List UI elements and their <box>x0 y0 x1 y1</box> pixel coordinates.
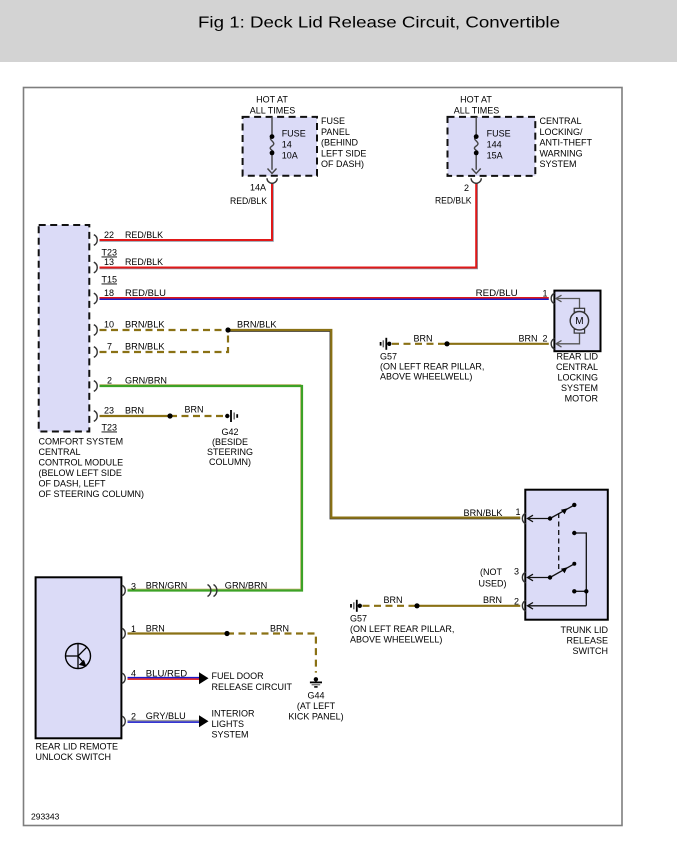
svg-text:3: 3 <box>514 567 519 577</box>
svg-text:(AT LEFT: (AT LEFT <box>297 701 336 711</box>
svg-text:RELEASE: RELEASE <box>566 636 608 646</box>
svg-text:13: 13 <box>104 257 114 267</box>
svg-text:LOCKING: LOCKING <box>557 373 598 383</box>
svg-text:RED/BLU: RED/BLU <box>125 288 166 298</box>
svg-text:14A: 14A <box>250 183 266 193</box>
svg-text:CENTRAL: CENTRAL <box>540 116 582 126</box>
svg-text:ANTI-THEFT: ANTI-THEFT <box>540 138 593 148</box>
svg-text:(BESIDE: (BESIDE <box>212 437 248 447</box>
svg-text:HOT AT: HOT AT <box>256 95 288 105</box>
svg-text:SWITCH: SWITCH <box>573 646 609 656</box>
svg-text:REAR LID REMOTE: REAR LID REMOTE <box>36 742 119 752</box>
svg-text:(NOT: (NOT <box>480 567 502 577</box>
svg-text:7: 7 <box>107 342 112 352</box>
svg-text:CONTROL MODULE: CONTROL MODULE <box>39 458 124 468</box>
svg-text:23: 23 <box>104 406 114 416</box>
svg-text:(ON LEFT REAR PILLAR,: (ON LEFT REAR PILLAR, <box>380 362 484 372</box>
svg-text:144: 144 <box>487 140 502 150</box>
svg-text:GRN/BRN: GRN/BRN <box>125 376 167 386</box>
svg-text:1: 1 <box>131 624 136 634</box>
svg-text:1: 1 <box>516 507 521 517</box>
svg-text:OF DASH): OF DASH) <box>321 159 364 169</box>
svg-text:1: 1 <box>543 289 548 299</box>
svg-text:BRN/BLK: BRN/BLK <box>237 320 277 330</box>
svg-text:HOT AT: HOT AT <box>460 95 492 105</box>
svg-text:LOCKING/: LOCKING/ <box>540 127 584 137</box>
svg-text:293343: 293343 <box>31 812 60 822</box>
svg-text:FUEL DOOR: FUEL DOOR <box>212 671 265 681</box>
svg-text:T23: T23 <box>102 248 118 258</box>
svg-text:STEERING: STEERING <box>207 447 253 457</box>
svg-text:MOTOR: MOTOR <box>565 394 599 404</box>
svg-text:2: 2 <box>107 376 112 386</box>
svg-text:10: 10 <box>104 320 114 330</box>
svg-text:CENTRAL: CENTRAL <box>39 447 81 457</box>
svg-text:T23: T23 <box>102 423 118 433</box>
svg-text:ALL TIMES: ALL TIMES <box>454 106 500 116</box>
svg-text:BRN: BRN <box>383 595 402 605</box>
svg-text:FUSE: FUSE <box>282 129 306 139</box>
svg-text:14: 14 <box>282 140 292 150</box>
svg-text:(BELOW LEFT SIDE: (BELOW LEFT SIDE <box>39 468 122 478</box>
svg-text:BRN/BLK: BRN/BLK <box>125 342 165 352</box>
svg-text:RELEASE CIRCUIT: RELEASE CIRCUIT <box>212 682 293 692</box>
svg-text:G42: G42 <box>221 427 238 437</box>
svg-text:4: 4 <box>131 669 136 679</box>
svg-text:BRN: BRN <box>185 405 204 415</box>
svg-text:USED): USED) <box>478 579 506 589</box>
svg-text:BLU/RED: BLU/RED <box>146 669 188 679</box>
svg-text:ALL TIMES: ALL TIMES <box>250 106 296 116</box>
svg-text:BRN/GRN: BRN/GRN <box>146 581 188 591</box>
svg-text:2: 2 <box>543 334 548 344</box>
svg-text:T15: T15 <box>102 275 118 285</box>
svg-text:COMFORT SYSTEM: COMFORT SYSTEM <box>39 437 124 447</box>
svg-text:RED/BLK: RED/BLK <box>230 196 267 206</box>
svg-text:OF STEERING COLUMN): OF STEERING COLUMN) <box>39 489 145 499</box>
svg-text:KICK PANEL): KICK PANEL) <box>288 712 343 722</box>
svg-text:LIGHTS: LIGHTS <box>212 719 245 729</box>
svg-text:G57: G57 <box>350 614 367 624</box>
svg-text:LEFT SIDE: LEFT SIDE <box>321 148 366 158</box>
svg-text:OF DASH, LEFT: OF DASH, LEFT <box>39 479 107 489</box>
svg-text:2: 2 <box>131 712 136 722</box>
svg-text:2: 2 <box>514 597 519 607</box>
svg-text:CENTRAL: CENTRAL <box>556 362 598 372</box>
svg-text:ABOVE WHEELWELL): ABOVE WHEELWELL) <box>350 635 442 645</box>
svg-text:BRN: BRN <box>146 624 165 634</box>
svg-text:M: M <box>575 316 583 327</box>
svg-text:PANEL: PANEL <box>321 127 350 137</box>
svg-text:INTERIOR: INTERIOR <box>212 709 256 719</box>
svg-text:22: 22 <box>104 230 114 240</box>
svg-text:FUSE: FUSE <box>487 129 511 139</box>
svg-text:TRUNK LID: TRUNK LID <box>560 625 608 635</box>
svg-text:18: 18 <box>104 288 114 298</box>
svg-text:RED/BLK: RED/BLK <box>125 257 163 267</box>
svg-text:BRN/BLK: BRN/BLK <box>125 320 165 330</box>
svg-text:BRN: BRN <box>125 406 144 416</box>
svg-text:BRN: BRN <box>518 334 537 344</box>
svg-text:SYSTEM: SYSTEM <box>540 159 577 169</box>
svg-text:SYSTEM: SYSTEM <box>561 383 598 393</box>
svg-text:ABOVE WHEELWELL): ABOVE WHEELWELL) <box>380 372 472 382</box>
svg-text:RED/BLU: RED/BLU <box>476 288 518 298</box>
svg-text:BRN: BRN <box>413 334 432 344</box>
svg-text:10A: 10A <box>282 150 298 160</box>
svg-text:Fig 1: Deck Lid Release Circui: Fig 1: Deck Lid Release Circuit, Convert… <box>198 15 560 32</box>
svg-text:(BEHIND: (BEHIND <box>321 138 359 148</box>
svg-text:3: 3 <box>131 582 136 592</box>
svg-text:G44: G44 <box>307 691 324 701</box>
svg-text:G57: G57 <box>380 352 397 362</box>
svg-text:BRN/BLK: BRN/BLK <box>464 508 503 518</box>
svg-text:BRN: BRN <box>483 595 502 605</box>
svg-text:(ON LEFT REAR PILLAR,: (ON LEFT REAR PILLAR, <box>350 624 454 634</box>
svg-text:SYSTEM: SYSTEM <box>212 730 249 740</box>
svg-text:UNLOCK SWITCH: UNLOCK SWITCH <box>36 752 112 762</box>
svg-text:GRN/BRN: GRN/BRN <box>225 581 267 591</box>
svg-text:RED/BLK: RED/BLK <box>435 196 472 206</box>
svg-text:15A: 15A <box>487 150 503 160</box>
svg-text:GRY/BLU: GRY/BLU <box>146 711 186 721</box>
svg-text:2: 2 <box>464 183 469 193</box>
svg-text:COLUMN): COLUMN) <box>209 457 251 467</box>
svg-text:WARNING: WARNING <box>540 148 583 158</box>
svg-text:FUSE: FUSE <box>321 116 345 126</box>
svg-text:RED/BLK: RED/BLK <box>125 230 163 240</box>
svg-text:REAR LID: REAR LID <box>556 352 598 362</box>
svg-text:BRN: BRN <box>270 624 289 634</box>
